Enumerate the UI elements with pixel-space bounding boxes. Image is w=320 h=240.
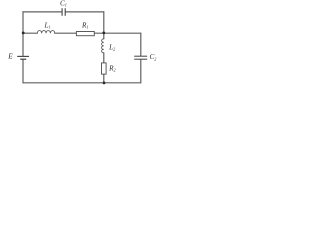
resistor R1 bbox=[76, 32, 94, 36]
wire bottom rail bbox=[23, 82, 141, 84]
wire middle branch below R2 bbox=[103, 74, 105, 83]
wire right branch below C2 bbox=[140, 60, 142, 83]
inductor L1 bbox=[37, 31, 55, 34]
capacitor C2 bbox=[134, 56, 147, 59]
node junction left middle bbox=[22, 32, 25, 35]
wire top rail right of C1 bbox=[66, 11, 104, 13]
wire middle rail left of L1 bbox=[23, 32, 37, 34]
inductor L2 bbox=[102, 39, 104, 53]
svg-text:E: E bbox=[7, 52, 13, 60]
wire left vertical above battery bbox=[22, 12, 24, 56]
svg-text:C1: C1 bbox=[60, 0, 67, 8]
wire middle branch above L2 bbox=[103, 33, 105, 39]
wire left vertical below battery bbox=[22, 59, 24, 82]
wire top rail left of C1 bbox=[23, 11, 62, 13]
wire middle rail right of R1 bbox=[94, 32, 141, 34]
svg-text:R1: R1 bbox=[81, 22, 88, 30]
svg-text:L1: L1 bbox=[44, 22, 51, 30]
wire right vertical of top loop bbox=[103, 12, 105, 33]
resistor R2 bbox=[102, 63, 107, 74]
node junction middle top bbox=[102, 32, 105, 35]
svg-text:R2: R2 bbox=[108, 64, 115, 72]
node junction middle bottom bbox=[103, 82, 106, 85]
wire middle branch between L2 and R2 bbox=[103, 53, 105, 63]
wire right branch above C2 bbox=[140, 33, 142, 56]
wire middle rail between L1 and R1 bbox=[55, 32, 77, 34]
svg-text:L2: L2 bbox=[108, 43, 115, 51]
battery E bbox=[17, 56, 29, 59]
svg-text:C2: C2 bbox=[150, 53, 157, 61]
capacitor C1 bbox=[62, 8, 65, 16]
